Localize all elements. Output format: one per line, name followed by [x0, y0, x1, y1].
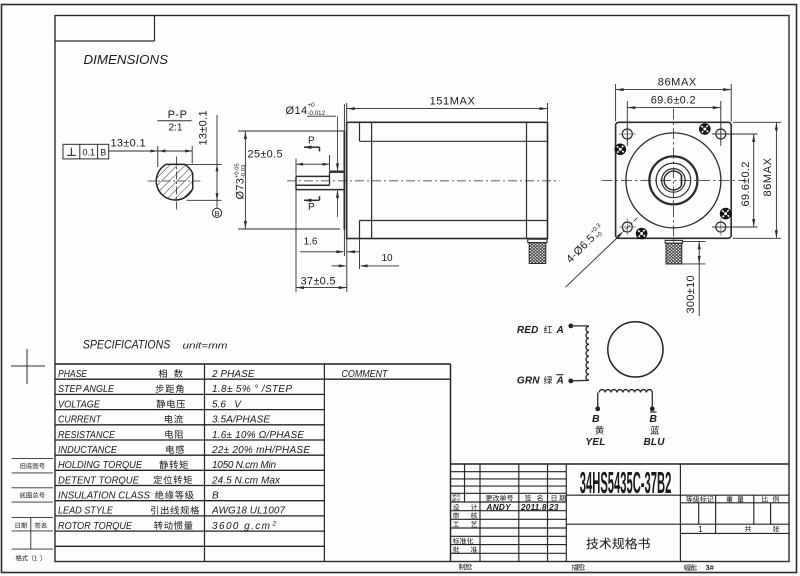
svg-text:COMMENT: COMMENT	[342, 369, 389, 380]
shaft end face	[295, 176, 297, 189]
svg-text:INDUCTANCE: INDUCTANCE	[58, 445, 117, 456]
svg-text:5.6 V: 5.6 V	[212, 399, 242, 410]
svg-text:22± 20% mH/PHASE: 22± 20% mH/PHASE	[211, 445, 310, 456]
title 技术规格书	[586, 537, 649, 549]
bearing boss ring	[649, 156, 697, 204]
shaft full-diameter top edge	[330, 170, 345, 172]
stator stack bottom line	[360, 220, 548, 222]
label Bbar terminal	[649, 412, 657, 425]
row 1 共 张	[698, 524, 779, 534]
svg-text:P: P	[308, 202, 315, 213]
svg-text:LEAD STYLE: LEAD STYLE	[58, 506, 113, 517]
wire A to coil	[571, 325, 589, 327]
coil B winding	[599, 390, 652, 393]
left margin label 格式(1)	[16, 555, 42, 561]
SPECIFICATIONS heading	[83, 337, 228, 351]
svg-text:1050 N.cm Min: 1050 N.cm Min	[212, 460, 276, 471]
section marker P lower	[304, 196, 320, 213]
svg-text:24.5 N.cm Max: 24.5 N.cm Max	[211, 475, 281, 486]
stator stack top line	[360, 140, 548, 142]
shaft bottom edge	[296, 189, 344, 191]
svg-text:1.6± 10% Ω/PHASE: 1.6± 10% Ω/PHASE	[212, 430, 304, 441]
row 审核	[453, 512, 477, 518]
section title P-P 2:1	[157, 109, 191, 134]
left margin box 旧底图号	[12, 459, 53, 473]
dimension Ø14 shaft	[286, 102, 340, 217]
svg-text:86MAX: 86MAX	[762, 157, 774, 196]
title block outline	[451, 364, 790, 562]
motor body side view outline	[347, 122, 548, 238]
svg-text:34HS5435C-37B2: 34HS5435C-37B2	[580, 466, 672, 500]
front view centerlines	[602, 109, 745, 252]
dimension 86MAX right	[733, 122, 781, 238]
mounting hole top-left	[619, 126, 636, 143]
svg-text:RESISTANCE: RESISTANCE	[58, 430, 115, 441]
screw head bottom-right	[720, 208, 731, 219]
dimension 300±10 cable	[683, 241, 706, 316]
svg-text:69.6±0.2: 69.6±0.2	[740, 161, 752, 206]
dimension 1.6	[300, 237, 360, 257]
spec table text	[58, 369, 310, 532]
wire Abar to coil	[571, 379, 589, 382]
svg-text:0.1: 0.1	[82, 147, 95, 157]
DIMENSIONS heading	[84, 52, 169, 67]
pilot circle Ø73	[626, 133, 721, 228]
screw head top-right	[699, 124, 710, 135]
datum B symbol	[212, 200, 221, 218]
section marker P upper	[304, 135, 320, 151]
front cap notch	[359, 122, 361, 238]
svg-text:CURRENT: CURRENT	[58, 415, 102, 426]
cable gland side view	[528, 239, 547, 263]
phase Abar label GRN	[517, 375, 564, 387]
motor centerline	[287, 180, 560, 182]
leader 4-Ø6.5 holes	[564, 218, 638, 288]
svg-text:3.5A/PHASE: 3.5A/PHASE	[212, 415, 270, 426]
svg-text:69.6±0.2: 69.6±0.2	[651, 95, 696, 107]
label B terminal	[592, 413, 600, 425]
front end-cap line	[371, 122, 373, 238]
svg-text:B: B	[649, 413, 657, 425]
wire B vertical	[597, 393, 599, 408]
svg-text:SPECIFICATIONS: SPECIFICATIONS	[83, 337, 171, 351]
flatness feature control frame	[63, 144, 109, 159]
label 蓝 BLU	[644, 426, 666, 448]
row 批准	[453, 546, 477, 552]
svg-text:ANDY: ANDY	[486, 503, 513, 512]
svg-text:Ø14: Ø14	[286, 105, 308, 117]
dimension 13±0.1 vertical	[186, 110, 222, 200]
svg-text:GRN: GRN	[517, 376, 540, 387]
svg-text:1.6: 1.6	[304, 237, 318, 248]
svg-text:2: 2	[272, 520, 277, 527]
svg-text:DETENT TORQUE: DETENT TORQUE	[58, 475, 139, 486]
rear end-cap line	[526, 122, 528, 238]
ring inner	[662, 169, 686, 193]
row 工艺	[453, 521, 477, 527]
svg-text:YEL: YEL	[586, 437, 606, 448]
section centerlines	[148, 157, 202, 210]
coil A winding	[586, 326, 589, 380]
mounting hole bottom-right	[712, 219, 729, 236]
svg-text:INSULATION CLASS: INSULATION CLASS	[58, 491, 150, 502]
terminal node Bbar	[650, 407, 654, 411]
dimension 69.6±0.2 right	[712, 134, 758, 227]
label 黄 YEL	[586, 426, 606, 448]
wire Bbar vertical	[651, 393, 653, 408]
left margin box 底图总号	[12, 488, 53, 502]
svg-text:A: A	[556, 325, 564, 336]
svg-text:2:1: 2:1	[169, 123, 183, 134]
ring middle	[656, 163, 691, 198]
svg-text:3#: 3#	[706, 563, 715, 572]
svg-text:2011.8.23: 2011.8.23	[520, 503, 559, 512]
svg-text:+0.05: +0.05	[235, 163, 241, 178]
svg-text:Ø73: Ø73	[235, 178, 247, 200]
terminal node B	[596, 407, 600, 411]
svg-text:A: A	[556, 376, 564, 387]
svg-text:-0.03: -0.03	[241, 165, 247, 178]
phase A label RED	[517, 325, 564, 336]
dimension 86MAX top	[616, 77, 732, 122]
svg-text:300±10: 300±10	[685, 275, 697, 313]
motor front view square	[616, 122, 732, 238]
svg-text:13±0.1: 13±0.1	[197, 110, 209, 145]
spec table grid	[55, 364, 451, 562]
svg-text:25±0.5: 25±0.5	[248, 149, 283, 161]
COMMENT header	[342, 369, 389, 380]
shaft section P-P hatched	[156, 164, 192, 200]
svg-text:HOLDING TORQUE: HOLDING TORQUE	[58, 460, 142, 471]
part number 34HS5435C-37B2	[580, 466, 672, 500]
revision header row	[452, 493, 565, 501]
svg-text:37±0.5: 37±0.5	[301, 275, 336, 287]
top-left accumulation box	[55, 16, 155, 42]
dimension 37±0.5	[296, 190, 347, 292]
bottom strip 制图	[459, 564, 472, 570]
svg-text:P-P: P-P	[168, 109, 188, 121]
shaft flat bottom edge	[296, 184, 330, 186]
svg-text:151MAX: 151MAX	[430, 96, 476, 108]
svg-text:B: B	[592, 413, 600, 425]
svg-text:B: B	[100, 147, 106, 157]
left margin centering cross	[11, 349, 45, 384]
terminal node A	[569, 324, 573, 328]
shaft flat step	[329, 172, 331, 186]
shaft flat top edge	[296, 175, 330, 177]
svg-text:BLU: BLU	[644, 437, 666, 448]
svg-text:1.8± 5% ° /STEP: 1.8± 5% ° /STEP	[212, 384, 292, 395]
mounting hole bottom-left	[619, 219, 636, 236]
dimension 13±0.1 horizontal	[109, 138, 193, 168]
row 设计 ANDY	[453, 503, 559, 512]
dimension 151MAX	[347, 96, 548, 121]
bottom strip 描图	[572, 564, 585, 570]
cable gland front view	[665, 240, 682, 264]
svg-text:P: P	[308, 135, 315, 146]
dimension Ø73 pilot	[235, 131, 345, 229]
mounting hole top-right	[712, 126, 729, 143]
header 等级标记 重量 比例	[686, 496, 779, 502]
dimension 25±0.5	[248, 149, 330, 176]
svg-text:AWG18 UL1007: AWG18 UL1007	[211, 506, 285, 517]
svg-text:13±0.1: 13±0.1	[111, 138, 146, 150]
svg-text:DIMENSIONS: DIMENSIONS	[84, 52, 169, 67]
dimension 69.6±0.2 top	[627, 95, 721, 146]
svg-text:VOLTAGE: VOLTAGE	[58, 399, 100, 410]
svg-text:PHASE: PHASE	[58, 369, 87, 380]
svg-text:RED: RED	[517, 325, 539, 336]
shaft circle with flat	[664, 171, 681, 190]
svg-text:B: B	[214, 209, 219, 218]
svg-text:86MAX: 86MAX	[658, 77, 697, 89]
svg-text:3600 g.cm: 3600 g.cm	[212, 521, 270, 532]
svg-text:B: B	[212, 491, 219, 502]
svg-text:ROTOR TORQUE: ROTOR TORQUE	[58, 521, 132, 532]
dimension 10	[332, 239, 400, 270]
rotor circle	[608, 322, 663, 377]
svg-text:1: 1	[698, 524, 703, 534]
svg-text:10: 10	[382, 253, 394, 264]
row 标准化	[453, 538, 474, 544]
svg-text:STEP ANGLE: STEP ANGLE	[58, 384, 114, 395]
svg-text:+0: +0	[308, 102, 316, 109]
left margin box 日期 签名	[12, 518, 53, 550]
svg-text:unit=mm: unit=mm	[183, 340, 228, 351]
pilot boss front face	[343, 104, 345, 256]
title block grid	[451, 464, 790, 562]
bottom strip 幅面 3#	[684, 563, 715, 572]
terminal node Abar	[569, 379, 573, 383]
svg-text:2 PHASE: 2 PHASE	[211, 369, 255, 380]
screw head bottom-left	[636, 228, 647, 239]
screw head top-left	[615, 144, 626, 155]
